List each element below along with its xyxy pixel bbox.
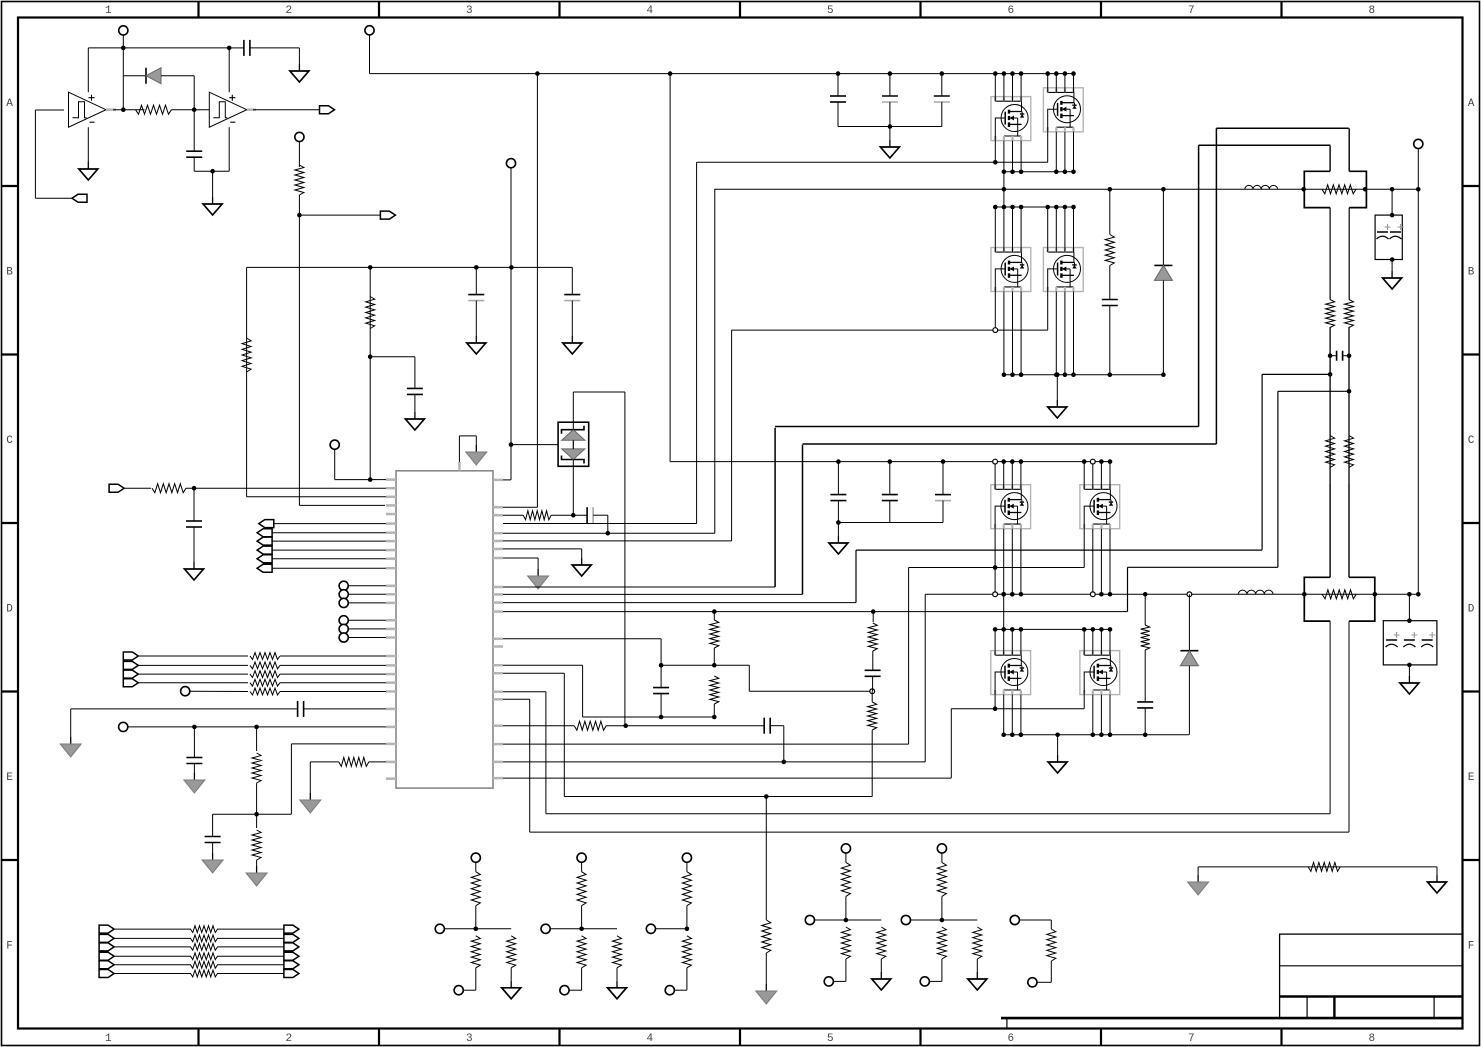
- svg-text:F: F: [1468, 940, 1475, 952]
- wire pin507: [503, 506, 537, 508]
- wire Q4 pin top: [1073, 207, 1075, 252]
- connector out1: [320, 106, 335, 114]
- wire top rail left: [88, 47, 229, 49]
- wire node A to top rail: [122, 48, 124, 76]
- transistor Q5: [991, 485, 1031, 529]
- capacitor C1: [186, 150, 202, 152]
- wire tag7: [272, 567, 386, 569]
- wire tap down: [414, 357, 416, 389]
- wire 1127 vertical: [1127, 567, 1129, 611]
- wire Q4 pin bot: [1055, 292, 1057, 375]
- junction Q6 bot: [1099, 592, 1104, 597]
- ground gray GA: [70, 737, 72, 744]
- wire RD6 c: [1050, 961, 1052, 982]
- wire Q2 gate v: [1047, 132, 1049, 163]
- junction rdiv mid: [254, 812, 259, 817]
- junction Q1 top: [993, 71, 998, 76]
- wire Q4 pin top: [1047, 207, 1049, 252]
- test point RD5B: [920, 977, 929, 986]
- wire pin725 a: [503, 725, 574, 727]
- wire capA3 drop: [941, 74, 943, 96]
- wire Q4 gate v: [1047, 292, 1049, 331]
- junction Q4 bot: [1071, 372, 1076, 377]
- hollow dcolD top: [1187, 592, 1192, 597]
- junction Q2 bot: [1054, 170, 1059, 175]
- junction Q8 top: [1082, 627, 1087, 632]
- wire Q5 pin bot: [1011, 529, 1013, 595]
- junction Q6 top: [1099, 459, 1104, 464]
- test point TP8: [339, 616, 348, 625]
- wire tag6: [272, 558, 386, 560]
- wire kelvinA2 v: [1277, 391, 1279, 567]
- wire kelvinA2 h: [1278, 390, 1349, 392]
- wire Q5 pin top: [1020, 462, 1022, 490]
- wire C1 bottom: [193, 157, 195, 171]
- wire net2 b: [217, 937, 284, 939]
- capacitor C18: [1336, 351, 1338, 361]
- wire C2 to gnd corner: [250, 47, 300, 49]
- resistor RN4: [191, 953, 218, 960]
- wire RD1 d: [475, 968, 477, 990]
- junction Q7 bot: [1010, 733, 1015, 738]
- wire Q5 pin bot: [1020, 529, 1022, 595]
- wire pin3: [247, 496, 386, 498]
- wire Q2 pin top: [1055, 74, 1057, 93]
- pin stub T1: [458, 462, 461, 471]
- junction Q4 bot: [1063, 372, 1068, 377]
- junction mid tap: [368, 355, 373, 360]
- test point RD2B: [560, 986, 569, 995]
- resistor RD21: [577, 872, 586, 906]
- resistor R25: [1141, 625, 1150, 650]
- wire C4 drop: [475, 267, 477, 294]
- wire pin479 right: [503, 479, 511, 481]
- svg-text:2: 2: [285, 1033, 292, 1045]
- wire TP10: [348, 637, 386, 639]
- svg-text:E: E: [6, 772, 13, 784]
- junction Q4 top: [1054, 205, 1059, 210]
- wire Q7 pin top: [1011, 629, 1013, 655]
- junction elecD bot: [1407, 663, 1412, 668]
- resistor R23: [1326, 436, 1335, 468]
- wire U1B plus up: [228, 48, 230, 92]
- wire capC2 drop: [889, 462, 891, 495]
- pin stub L18: [386, 655, 396, 658]
- junction elecD top: [1407, 618, 1412, 623]
- junction phaseA: [1002, 187, 1007, 192]
- wire gnd stem: [212, 171, 214, 197]
- wire Q5 gate v: [994, 529, 996, 595]
- junction Q3 bot: [1010, 372, 1015, 377]
- electrolytic capacitors CE1 CE2: [1375, 215, 1402, 259]
- wire Q7 pin top: [1003, 629, 1005, 655]
- wire rowB gate bus: [732, 329, 1048, 331]
- wire pin541: [503, 540, 732, 542]
- junction rail b: [474, 265, 479, 270]
- wire senseR v: [1348, 327, 1350, 483]
- test point RD4L: [805, 915, 814, 924]
- wire R13 to pin: [369, 761, 386, 763]
- wire TP3 stem: [334, 449, 336, 479]
- wire col1 c: [713, 704, 715, 717]
- wire rowB drain rail: [995, 206, 1073, 208]
- junction Q2 bot: [1063, 170, 1068, 175]
- capacitor C4: [468, 294, 484, 296]
- wire node A up: [122, 76, 124, 110]
- junction Q2 top: [1054, 71, 1059, 76]
- connector NR1: [284, 925, 299, 933]
- wire pin611 bus: [503, 611, 1128, 613]
- svg-text:A: A: [1468, 98, 1475, 110]
- capacitor C12: [653, 687, 669, 689]
- pin stub L16: [386, 628, 396, 631]
- test point RD3L: [646, 924, 655, 933]
- wire capA gnd stem: [889, 127, 891, 141]
- wire capC gnd stem: [837, 523, 839, 537]
- wire rowB source rail: [1004, 374, 1164, 376]
- junction Q5 bot: [1019, 592, 1024, 597]
- wire C3 gnd stem: [414, 394, 416, 412]
- wire capC3 drop: [942, 462, 944, 495]
- capacitor C10: [586, 507, 588, 523]
- junction Q5 gate: [993, 565, 998, 570]
- junction dcolB bot: [1161, 372, 1166, 377]
- wire Q6 pin top: [1109, 462, 1111, 490]
- pin stub R5: [493, 540, 503, 543]
- wire rdiv low: [256, 814, 258, 828]
- wire pin725 b: [606, 725, 764, 727]
- connector NR5: [284, 961, 299, 969]
- wire C8 gnd: [193, 764, 195, 774]
- junction Q7 top: [993, 627, 998, 632]
- ground gray GD: [256, 866, 258, 873]
- wire col1 a: [713, 612, 715, 620]
- junction Q1 bot: [1019, 170, 1024, 175]
- wire C18 lead a: [1330, 355, 1337, 357]
- wire Q4 pin top: [1055, 207, 1057, 252]
- wire node B down to cap: [193, 110, 195, 152]
- wire D1 to node B: [161, 75, 194, 77]
- pin stub R14: [493, 645, 503, 648]
- junction 783: [782, 760, 787, 765]
- resistor R24: [1345, 436, 1354, 468]
- wire Q3 pin top: [1003, 207, 1005, 252]
- capacitor C17: [1102, 299, 1118, 301]
- wire phaseB link: [1003, 189, 1005, 207]
- wire RD2 e: [569, 989, 582, 991]
- wire rowA phase rail: [1004, 171, 1074, 173]
- resistor R6: [250, 653, 280, 660]
- wire Q1 pin top: [1012, 74, 1014, 102]
- capacitor C2: [243, 40, 245, 56]
- wire kelvin 567 part: [1128, 566, 1278, 568]
- svg-text:B: B: [1468, 266, 1475, 278]
- junction Q1 top: [1019, 71, 1024, 76]
- ground G3: [1436, 875, 1438, 882]
- wire TVS top right: [573, 391, 625, 393]
- wire RD5 g: [976, 959, 978, 972]
- pin stub L1: [386, 478, 396, 481]
- test point RD1T: [471, 853, 480, 862]
- pin stub R2: [493, 506, 503, 509]
- wire Q6 gate v: [1083, 529, 1085, 568]
- connector in2: [109, 484, 124, 492]
- wire 529 vertical: [529, 699, 531, 832]
- wire R12 gnd: [256, 860, 258, 866]
- wire RD3 b: [686, 906, 688, 929]
- svg-text:B: B: [6, 266, 13, 278]
- resistor RN5: [191, 961, 218, 968]
- wire RD2 f: [582, 928, 617, 930]
- test point RD6B: [1028, 978, 1037, 987]
- svg-text:D: D: [1468, 603, 1475, 615]
- junction bus r1: [1108, 187, 1113, 192]
- test point TP9: [339, 624, 348, 633]
- wire Q5 pin top: [1003, 462, 1005, 490]
- wire VIN stem: [369, 35, 371, 74]
- wire capA2 low: [889, 102, 891, 127]
- pin stub R17: [493, 698, 503, 701]
- wire RD4 b: [845, 896, 847, 920]
- wire Q1 pin top: [1003, 74, 1005, 102]
- test point TP12: [119, 722, 128, 731]
- wire R5 to pin2: [186, 487, 386, 489]
- junction Q1 bot: [1010, 170, 1015, 175]
- capacitor C20: [882, 494, 898, 496]
- wire kelvinA1 v: [1261, 374, 1263, 550]
- wire loop1 bottom: [803, 443, 1217, 445]
- capacitor C14: [830, 95, 846, 97]
- wire colB b: [1109, 266, 1111, 300]
- node A junction: [121, 107, 126, 112]
- wire node C to arrow: [299, 214, 380, 216]
- junction capA2: [888, 71, 893, 76]
- resistor RD22: [577, 936, 586, 968]
- wire dcolB a: [1162, 189, 1164, 265]
- wire C18 lead b: [1343, 355, 1349, 357]
- op-amp U1A: [69, 92, 107, 127]
- resistor Rs1: [1322, 185, 1356, 194]
- wire 717 rail: [583, 716, 715, 718]
- wire colD c: [1144, 708, 1146, 735]
- wire loop2 top: [1199, 144, 1331, 146]
- pin stub L3: [386, 496, 396, 499]
- wire C9 gnd: [212, 843, 214, 854]
- resistor R8: [250, 671, 280, 678]
- wire TP7: [348, 602, 386, 604]
- pin stub L24: [386, 726, 396, 729]
- pin stub R8: [493, 586, 503, 589]
- wire 661 c: [660, 665, 662, 687]
- wire rowD gate bus: [951, 708, 1084, 710]
- junction TP1 rail: [121, 46, 126, 51]
- junction elecA bot: [1390, 257, 1395, 262]
- svg-text:7: 7: [1188, 1033, 1195, 1045]
- pin stub R20: [493, 761, 503, 764]
- wire RD1 e: [463, 989, 476, 991]
- diode D4: [1180, 650, 1198, 652]
- connector tag6: [257, 555, 272, 563]
- wire rdiv left: [213, 813, 257, 815]
- connector in5: [123, 670, 138, 678]
- junction Q7 top: [1010, 627, 1015, 632]
- wire U1A plus drop: [87, 48, 89, 92]
- wire node B drop: [193, 76, 195, 110]
- hollow Q6 phase: [1090, 592, 1095, 597]
- wire into IC pin5: [299, 504, 385, 506]
- resistor RN3: [191, 944, 218, 951]
- svg-text:C: C: [6, 435, 13, 447]
- wire R6 out: [280, 655, 386, 657]
- wire R13 left: [310, 761, 339, 763]
- pin stub L23: [386, 708, 396, 711]
- svg-text:8: 8: [1368, 1033, 1375, 1045]
- junction capA1: [836, 71, 841, 76]
- pin stub R13: [493, 664, 503, 667]
- junction 661 bot: [659, 715, 664, 720]
- wire left branch vertical: [246, 267, 248, 496]
- wire 661 d: [660, 694, 662, 717]
- wire Q2 pin bot: [1064, 132, 1066, 172]
- wire colB c: [1109, 306, 1111, 375]
- junction 661 mid: [659, 663, 664, 668]
- junction out end: [1416, 592, 1421, 597]
- wire RD4 f: [846, 919, 881, 921]
- junction cap8: [192, 725, 197, 730]
- ground gray GE: [309, 793, 311, 800]
- wire tag2: [274, 523, 386, 525]
- pin stub U1B out: [247, 108, 256, 111]
- resistor Rs2: [1322, 590, 1356, 599]
- wire Q1 pin top: [1020, 74, 1022, 102]
- wire 670 vertical: [669, 74, 671, 462]
- shunt resistor RS-D: [1304, 483, 1375, 621]
- ground RD1G: [510, 981, 512, 988]
- wire 856 vertical: [855, 550, 857, 603]
- test point TP4: [506, 159, 515, 168]
- capacitor C3: [407, 387, 423, 389]
- wire Q8 pin bot: [1092, 695, 1094, 735]
- wire col2 c: [872, 676, 874, 691]
- wire RD2 b: [581, 906, 583, 929]
- resistor R17: [868, 623, 877, 651]
- wire TP4 vertical: [510, 168, 512, 268]
- wire R13 drop: [309, 762, 311, 793]
- wire net3 a: [114, 946, 191, 948]
- resistor RD43: [877, 927, 886, 959]
- pin stub L11: [386, 567, 396, 570]
- resistor RD52: [937, 927, 946, 959]
- wire gnd-cap drop: [70, 709, 72, 737]
- wire Q3 pin top: [1012, 207, 1014, 252]
- ground C3: [414, 412, 416, 419]
- wire VIN2 bus: [714, 188, 1418, 190]
- wire Q3 pin bot: [1020, 292, 1022, 375]
- wire Q2 pin top: [1073, 74, 1075, 93]
- wire TP8: [348, 619, 386, 621]
- ground gray GB: [193, 773, 195, 780]
- junction rail a: [368, 265, 373, 270]
- junction gndD: [1055, 733, 1060, 738]
- wire TP12: [128, 726, 386, 728]
- test point RD4B: [824, 977, 833, 986]
- test point RD2T: [577, 853, 586, 862]
- wire RD3 c: [656, 928, 687, 930]
- capacitor C6: [186, 520, 202, 522]
- wire TVS top: [572, 392, 574, 430]
- hollow Q3 gate: [993, 328, 998, 333]
- ground gray G2: [537, 569, 539, 576]
- junction RD1: [474, 927, 479, 932]
- wire RD4 d: [845, 959, 847, 981]
- pin stub L26: [386, 761, 396, 764]
- junction pin1: [368, 477, 373, 482]
- wire capA rail: [838, 126, 942, 128]
- svg-text:3: 3: [466, 1033, 473, 1045]
- junction Q5 bot: [1001, 592, 1006, 597]
- wire Q8 pin bot: [1109, 695, 1111, 735]
- ground gray GF: [475, 445, 477, 452]
- test point TP2: [295, 132, 304, 141]
- pin stub L12: [386, 585, 396, 588]
- test point RD6L: [1010, 915, 1019, 924]
- junction Q3 top: [1002, 205, 1007, 210]
- transistor Q2: [1043, 88, 1083, 132]
- resistor RD41: [841, 862, 850, 896]
- junction RD5: [940, 918, 945, 923]
- pin stub R16: [493, 690, 503, 693]
- wire TP9: [348, 628, 386, 630]
- pin stub L8: [386, 540, 396, 543]
- junction 625 bot: [623, 723, 628, 728]
- resistor RD53: [973, 927, 982, 959]
- resistor R9: [250, 679, 280, 686]
- pin stub L17: [386, 636, 396, 639]
- wire senseL v: [1329, 327, 1331, 483]
- ground C5: [571, 336, 573, 343]
- wire tag3: [272, 532, 386, 534]
- wire kelvin 550: [856, 549, 1262, 551]
- ground GPA: [889, 140, 891, 147]
- wire R7 out: [280, 664, 386, 666]
- ground gray GC: [212, 853, 214, 860]
- wire in2 to R5: [124, 487, 151, 489]
- resistor RD12: [471, 936, 480, 968]
- wire RD6 b: [1050, 920, 1052, 929]
- wire rowC gate bus: [909, 567, 1085, 569]
- wire phaseD v: [1003, 594, 1005, 629]
- resistor RD23: [613, 936, 622, 968]
- wire out vertical: [1417, 189, 1419, 594]
- junction Q5 top: [1019, 459, 1024, 464]
- wire top hook2: [459, 435, 476, 437]
- wire top hook: [458, 436, 460, 471]
- wire net5 b: [217, 964, 284, 966]
- junction senseR cap: [1347, 353, 1352, 358]
- pin stub L22: [386, 690, 396, 693]
- transistor Q1: [991, 97, 1031, 141]
- test point TP3: [330, 440, 339, 449]
- transistor Q4: [1043, 248, 1083, 292]
- pin stub L10: [386, 557, 396, 560]
- junction Q2 top: [1063, 71, 1068, 76]
- wire pin1: [370, 479, 386, 481]
- test point RD5T: [937, 844, 946, 853]
- junction Q5 top: [1001, 459, 1006, 464]
- wire phaseA drop: [1003, 172, 1005, 190]
- wire colD a: [1144, 594, 1146, 625]
- wire TVS bottom: [572, 460, 574, 516]
